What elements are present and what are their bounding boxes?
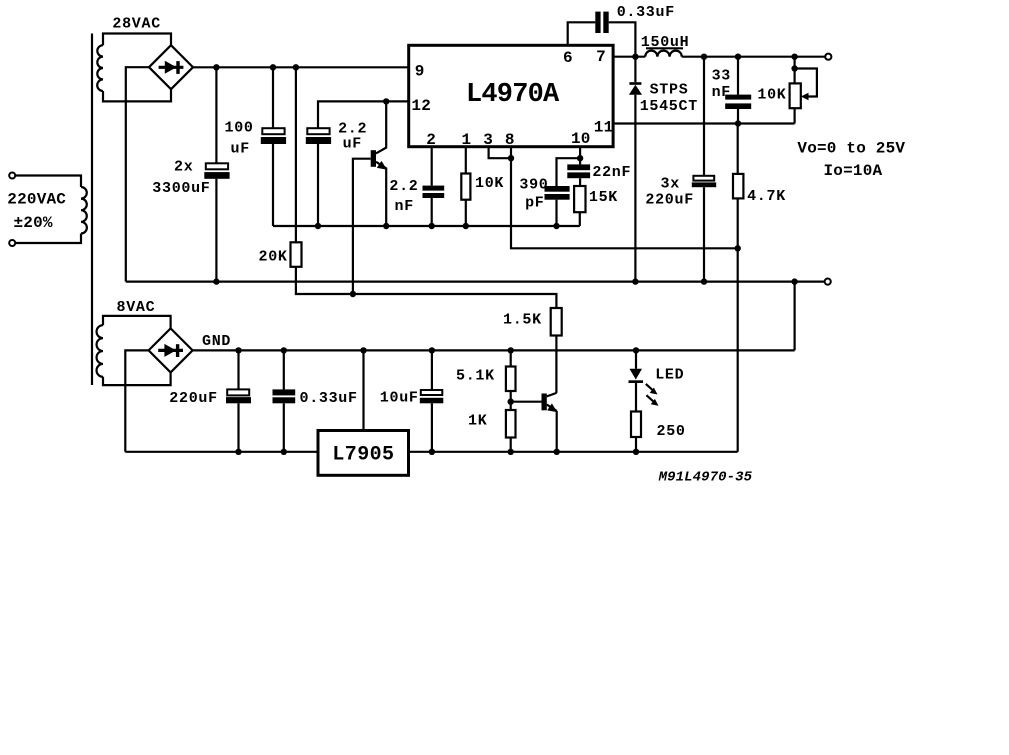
svg-text:10K: 10K	[475, 175, 504, 192]
wire AC input bottom lead	[15, 234, 81, 244]
svg-text:1.5K: 1.5K	[503, 312, 542, 329]
terminal output plus	[825, 54, 831, 60]
svg-text:uF: uF	[343, 136, 362, 153]
junction main line 100uF	[270, 64, 276, 70]
wire BR1 negative return	[126, 67, 149, 281]
svg-text:1545CT: 1545CT	[640, 98, 698, 115]
resistor 1.5K	[551, 308, 562, 393]
label GND	[202, 333, 231, 350]
wire top cap to output node	[609, 22, 636, 56]
terminal AC input top	[9, 173, 15, 179]
wire bottom rail right	[409, 451, 738, 453]
svg-text:Vo=0 to 25V: Vo=0 to 25V	[797, 140, 905, 158]
wire pin10 to 390pF	[557, 158, 581, 186]
svg-text:390: 390	[519, 176, 548, 193]
svg-text:220uF: 220uF	[169, 390, 218, 407]
label 220uF	[645, 192, 694, 209]
svg-text:1: 1	[462, 131, 472, 149]
junction output 33nF	[735, 54, 741, 60]
LED D1	[629, 350, 659, 411]
junction main line 3300uF	[213, 64, 219, 70]
junction 5.1K 1K base	[508, 399, 514, 405]
svg-text:33: 33	[712, 68, 731, 85]
pin label 1	[462, 131, 472, 149]
svg-text:LED: LED	[655, 367, 684, 384]
capacitor 390pF	[545, 186, 570, 226]
capacitor 100uF	[261, 67, 286, 226]
svg-text:4.7K: 4.7K	[747, 188, 786, 205]
junction gnd L7905	[360, 347, 366, 353]
junction rail2 gnd link	[791, 278, 797, 284]
label 28VAC	[112, 16, 161, 33]
capacitor 2x3300uF	[204, 67, 229, 281]
pin label 12	[411, 97, 431, 115]
capacitor 10uF	[420, 350, 444, 451]
wire main +V line	[193, 66, 409, 68]
svg-text:20K: 20K	[259, 249, 288, 266]
capacitor 22nF	[567, 158, 590, 186]
label 4.7K	[747, 188, 786, 205]
pin label 7	[596, 48, 606, 66]
svg-text:0.33uF: 0.33uF	[300, 390, 358, 407]
junction gnd 10uF	[429, 347, 435, 353]
transistor Q1	[353, 101, 387, 294]
pin label 11	[594, 119, 614, 137]
resistor 15K	[574, 186, 585, 226]
wire secondary2 bottom	[103, 372, 171, 385]
junction main line 20K	[293, 64, 299, 70]
wire signal ground rail	[273, 225, 580, 227]
pin label 6	[563, 49, 573, 67]
label 1.5K	[503, 312, 542, 329]
junction gnd 0.33uF	[281, 347, 287, 353]
label Vo=0 to 25V	[797, 140, 905, 158]
svg-text:0.33uF: 0.33uF	[617, 4, 675, 21]
svg-text:9: 9	[415, 63, 425, 81]
label 0.33uF	[617, 4, 675, 21]
wire bottom rail left	[125, 451, 318, 453]
label uF	[343, 136, 362, 153]
label Io=10A	[824, 162, 883, 180]
junction bottom 0.33uF	[281, 449, 287, 455]
svg-text:10uF: 10uF	[380, 390, 419, 407]
svg-text:M91L4970-35: M91L4970-35	[658, 470, 753, 486]
svg-text:nF: nF	[712, 84, 731, 101]
pin label 9	[415, 63, 425, 81]
junction output 220uF	[701, 54, 707, 60]
pin label 10	[571, 130, 591, 148]
junction rail1 emitter	[383, 223, 389, 229]
junction bottom 220uF	[235, 449, 241, 455]
wire pin10	[579, 147, 581, 159]
transistor Q2	[511, 393, 558, 452]
svg-text:3x: 3x	[661, 176, 680, 193]
svg-text:250: 250	[657, 423, 686, 440]
svg-text:nF: nF	[395, 198, 414, 215]
transformer T1 secondary 28VAC coil	[97, 45, 103, 91]
junction rail1 2.2uF	[315, 223, 321, 229]
wire secondary1 top	[103, 34, 171, 46]
label 8VAC	[117, 299, 156, 316]
capacitor 3x220uF	[692, 57, 716, 282]
junction pin10	[577, 155, 583, 161]
label 1K	[468, 413, 487, 430]
transformer T1 secondary 8VAC coil	[97, 325, 103, 377]
resistor 10K	[461, 147, 470, 226]
label 22nF	[592, 164, 631, 181]
junction gnd 220uF	[235, 347, 241, 353]
label nF	[712, 84, 731, 101]
label 2x	[174, 159, 193, 176]
svg-text:3300uF: 3300uF	[152, 180, 210, 197]
label 1545CT	[640, 98, 698, 115]
junction bottom 10uF	[429, 449, 435, 455]
potentiometer 10K	[790, 57, 817, 124]
junction bottom 1K	[508, 449, 514, 455]
junction rail2 3300uF	[213, 278, 219, 284]
label M91L4970-35	[658, 470, 753, 486]
bridge rectifier BR2	[149, 328, 193, 372]
capacitor 2.2uF	[306, 128, 331, 226]
pin label 3	[483, 131, 493, 149]
resistor 1K	[506, 410, 516, 452]
resistor 250	[631, 412, 641, 452]
junction 20K line base	[350, 291, 356, 297]
pin label 8	[505, 131, 515, 149]
label 2.2	[389, 178, 418, 195]
junction output pot	[791, 54, 797, 60]
svg-text:2: 2	[426, 131, 436, 149]
junction rail2 220uF	[701, 278, 707, 284]
label ±20%	[14, 214, 53, 232]
terminal AC input bottom	[9, 240, 15, 246]
capacitor 0.33uF lower	[273, 350, 296, 451]
junction bottom Q2 emitter	[554, 449, 560, 455]
terminal output minus	[825, 279, 831, 285]
junction gnd 5.1K	[508, 347, 514, 353]
junction rail1 10K	[463, 223, 469, 229]
pin label 2	[426, 131, 436, 149]
label 3300uF	[152, 180, 210, 197]
wire pin3 stub	[489, 147, 511, 159]
label nF	[395, 198, 414, 215]
svg-text:22nF: 22nF	[592, 164, 631, 181]
wire pin12 line	[318, 101, 409, 128]
junction rail1 2.2nF	[429, 223, 435, 229]
junction rail2 diode	[632, 278, 638, 284]
svg-text:15K: 15K	[589, 189, 618, 206]
wire GND rail	[193, 349, 795, 351]
wire output line after inductor	[682, 56, 825, 58]
label pF	[525, 195, 544, 212]
wire pin6 to top cap	[568, 22, 596, 45]
svg-text:1K: 1K	[468, 413, 487, 430]
svg-text:L7905: L7905	[332, 444, 394, 467]
IC U1 L4970A	[409, 45, 613, 146]
label STPS	[650, 82, 689, 99]
wire AC input top lead	[15, 176, 81, 188]
bridge rectifier BR1	[149, 45, 193, 89]
label 10K	[475, 175, 504, 192]
junction pin12 collector	[383, 98, 389, 104]
label 10uF	[380, 390, 419, 407]
svg-text:L4970A: L4970A	[466, 80, 560, 110]
label uF	[231, 141, 250, 158]
label 0.33uF lower	[300, 390, 358, 407]
wire pin7 output line	[613, 56, 645, 58]
capacitor 0.33uF top	[595, 12, 608, 33]
label 100	[225, 120, 254, 137]
svg-text:pF: pF	[525, 195, 544, 212]
svg-text:8VAC: 8VAC	[117, 299, 156, 316]
transformer T1 primary coil 220VAC	[81, 187, 87, 234]
transformer core	[91, 34, 93, 386]
svg-text:2x: 2x	[174, 159, 193, 176]
junction gnd LED	[633, 347, 639, 353]
svg-text:±20%: ±20%	[14, 214, 53, 232]
label 220VAC	[7, 191, 66, 209]
label 220uF lower	[169, 390, 218, 407]
label 20K	[259, 249, 288, 266]
junction output diode	[632, 54, 638, 60]
junction pot wiper	[791, 65, 797, 71]
resistor 5.1K	[506, 350, 516, 410]
diode STPS1545CT	[629, 57, 642, 282]
capacitor 220uF lower	[226, 350, 251, 451]
label 150uH underlined	[641, 34, 690, 51]
wire BR2 negative return	[125, 350, 148, 451]
svg-text:3: 3	[483, 131, 493, 149]
svg-text:11: 11	[594, 119, 614, 137]
label 250	[657, 423, 686, 440]
svg-text:12: 12	[411, 97, 431, 115]
wire pin8 sense line	[511, 147, 738, 249]
capacitor 2.2nF	[423, 147, 445, 226]
label 33	[712, 68, 731, 85]
label 390	[519, 176, 548, 193]
wire rail2 to gnd rail link	[793, 282, 795, 351]
svg-text:STPS: STPS	[650, 82, 689, 99]
capacitor 33nF	[725, 57, 751, 124]
svg-text:2.2: 2.2	[389, 178, 418, 195]
svg-text:7: 7	[596, 48, 606, 66]
junction pin3 pin8	[508, 155, 514, 161]
label 5.1K	[456, 368, 495, 385]
junction 4.7K sense line	[735, 245, 741, 251]
svg-text:8: 8	[505, 131, 515, 149]
svg-text:28VAC: 28VAC	[112, 16, 161, 33]
svg-text:10: 10	[571, 130, 591, 148]
svg-text:6: 6	[563, 49, 573, 67]
label 10K pot	[757, 87, 786, 104]
wire power return rail	[126, 281, 825, 283]
wire secondary1 bottom	[103, 89, 171, 101]
label 3x	[661, 176, 680, 193]
junction bottom 250	[633, 449, 639, 455]
wire L7905 input	[362, 350, 364, 430]
svg-text:GND: GND	[202, 333, 231, 350]
svg-text:220VAC: 220VAC	[7, 191, 66, 209]
inductor 150uH	[645, 51, 682, 57]
resistor 20K	[291, 67, 557, 308]
regulator U2 L7905	[318, 431, 409, 476]
svg-text:220uF: 220uF	[645, 192, 694, 209]
svg-text:5.1K: 5.1K	[456, 368, 495, 385]
label 15K	[589, 189, 618, 206]
label 2.2	[338, 121, 367, 138]
svg-text:10K: 10K	[757, 87, 786, 104]
svg-text:Io=10A: Io=10A	[824, 162, 883, 180]
wire pin11 line	[613, 122, 795, 124]
resistor 4.7K	[733, 124, 743, 452]
label LED	[655, 367, 684, 384]
svg-text:uF: uF	[231, 141, 250, 158]
junction pin11 33nF	[735, 120, 741, 126]
wire secondary2 top	[103, 316, 171, 329]
junction rail1 390pF	[553, 223, 559, 229]
svg-text:100: 100	[225, 120, 254, 137]
